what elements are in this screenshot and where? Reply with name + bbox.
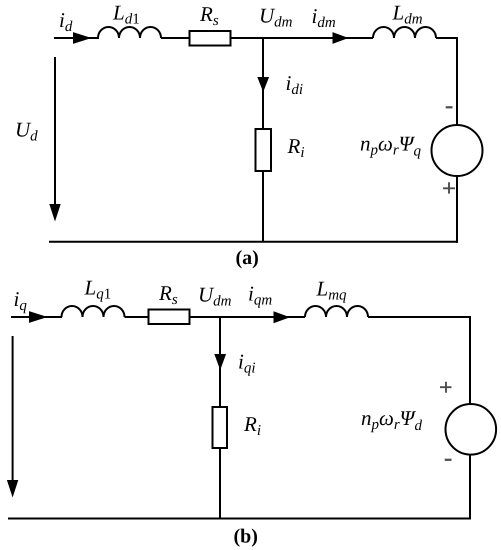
- arrow i_qm: [274, 311, 291, 323]
- wire right vertical lower (a): [456, 176, 458, 243]
- wire right vertical upper (b): [469, 316, 471, 405]
- arrow Uq left (b): [12, 336, 14, 483]
- inductor Ldm: [373, 27, 436, 38]
- wire Ld1 to Rs: [161, 37, 189, 39]
- wire bottom (a): [49, 241, 458, 243]
- arrow i_qi: [214, 354, 226, 370]
- source Eq (a): [432, 125, 483, 176]
- resistor Rs (a): [190, 31, 231, 46]
- wire Rs to Lmq: [190, 316, 306, 318]
- svg-text:(a): (a): [236, 247, 259, 269]
- wire branch lower (b): [219, 448, 221, 519]
- wire right vertical lower (b): [469, 454, 471, 520]
- wire branch upper (a): [262, 38, 264, 129]
- wire top-left (b): [11, 316, 62, 318]
- minus sign (a): [446, 106, 453, 108]
- source Ed (b): [446, 404, 497, 455]
- wire bottom (b): [8, 518, 471, 520]
- wire Lq1 to Rs: [125, 316, 149, 318]
- resistor Rs (b): [149, 310, 190, 325]
- wire top-left (a): [54, 37, 99, 39]
- wire branch lower (a): [262, 171, 264, 242]
- wire branch upper (b): [219, 317, 221, 407]
- inductor Lmq: [305, 306, 368, 317]
- plus sign (a): [443, 182, 455, 193]
- arrow i_q: [29, 311, 48, 323]
- plus sign (b): [440, 382, 452, 393]
- svg-text:(b): (b): [234, 526, 258, 548]
- minus sign (b): [445, 459, 452, 461]
- svg-text:npωrΨq: npωrΨq: [360, 132, 421, 160]
- arrow i_d: [73, 32, 92, 44]
- wire Ldm to corner: [436, 37, 458, 39]
- inductor Ld1: [98, 27, 161, 38]
- svg-text:npωrΨd: npωrΨd: [361, 406, 422, 434]
- resistor Ri (b): [213, 407, 228, 448]
- resistor Ri (a): [256, 129, 272, 171]
- wire right vertical upper (a): [456, 37, 458, 126]
- inductor Lq1: [62, 306, 125, 317]
- arrow i_dm: [333, 32, 349, 44]
- arrow Ud: [54, 57, 56, 207]
- wire Rs to Ldm: [231, 37, 374, 39]
- arrow i_di: [257, 77, 269, 92]
- wire Lmq to corner: [368, 316, 471, 318]
